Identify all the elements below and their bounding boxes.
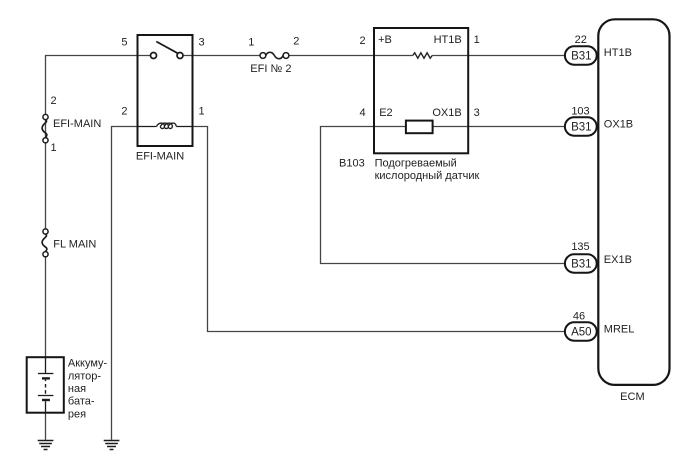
svg-text:1: 1 xyxy=(248,36,254,48)
svg-text:OX1B: OX1B xyxy=(604,119,633,131)
svg-text:MREL: MREL xyxy=(604,323,635,335)
svg-text:22: 22 xyxy=(575,34,587,46)
connector B31 pin 135 (EX1B) xyxy=(565,254,597,272)
relay EFI-MAIN box xyxy=(138,35,193,146)
svg-text:FL MAIN: FL MAIN xyxy=(53,238,96,250)
inductor: relay coil xyxy=(138,123,193,129)
resistor: oxygen sensor heater element xyxy=(413,53,433,58)
wire: relay coil pin 2 to ground xyxy=(112,127,138,440)
label: battery name (5 lines) xyxy=(68,358,108,421)
switch: relay contact terminals xyxy=(151,53,184,59)
svg-text:3: 3 xyxy=(199,37,205,49)
svg-text:+B: +B xyxy=(378,34,392,46)
svg-text:EFI № 2: EFI № 2 xyxy=(250,63,291,75)
svg-text:рея: рея xyxy=(68,408,86,420)
svg-text:E2: E2 xyxy=(379,107,392,119)
wire: relay pin 3 to fuse EFI No2 pin 1 xyxy=(183,55,260,57)
wire: HT1B row inside sensor box and out to ECM connector B31 xyxy=(374,55,565,57)
svg-text:3: 3 xyxy=(474,107,480,119)
svg-text:B31: B31 xyxy=(571,259,591,271)
svg-text:HT1B: HT1B xyxy=(604,47,632,59)
svg-text:B103: B103 xyxy=(339,158,365,170)
switch: relay movable blade xyxy=(156,42,178,54)
svg-text:B31: B31 xyxy=(571,51,591,63)
svg-text:лятор-: лятор- xyxy=(68,370,102,382)
svg-text:OX1B: OX1B xyxy=(432,107,461,119)
connector B31 pin 22 (HT1B) xyxy=(565,46,597,64)
svg-text:EFI-MAIN: EFI-MAIN xyxy=(53,118,101,130)
svg-text:2: 2 xyxy=(51,95,57,107)
svg-text:5: 5 xyxy=(121,37,127,49)
wire: battery negative to ground xyxy=(45,413,47,440)
svg-text:B31: B31 xyxy=(571,122,591,134)
fuse EFI No 2 (horizontal, terminals and wavy link) xyxy=(260,52,289,58)
connector A50 pin 46 (MREL) xyxy=(565,322,597,340)
svg-text:Аккуму-: Аккуму- xyxy=(68,358,108,370)
svg-text:1: 1 xyxy=(199,106,205,118)
svg-text:2: 2 xyxy=(293,36,299,48)
svg-text:EFI-MAIN: EFI-MAIN xyxy=(136,151,184,163)
wire: OX1B row from sensor element to ECM connector B31 xyxy=(433,126,565,128)
svg-text:2: 2 xyxy=(121,106,127,118)
wire: battery feed left vertical (battery + up to EFI-MAIN fuse and relay pin 5) xyxy=(45,56,47,358)
svg-text:46: 46 xyxy=(573,311,585,323)
wire: E2 row left from element, down and right to ECM connector B31 (EX1B) xyxy=(321,127,566,264)
fusible link FL MAIN (terminals and wavy link) xyxy=(42,229,48,257)
ground: relay coil pin 2 xyxy=(104,441,120,450)
svg-text:ная: ная xyxy=(68,383,86,395)
svg-text:ECM: ECM xyxy=(620,391,644,403)
svg-text:135: 135 xyxy=(571,241,589,253)
svg-text:Подогреваемый: Подогреваемый xyxy=(375,158,457,170)
battery box xyxy=(27,357,64,413)
fuse EFI-MAIN (left vertical, terminals and wavy link) xyxy=(42,114,48,142)
svg-text:1: 1 xyxy=(474,34,480,46)
ECM box xyxy=(598,19,669,385)
svg-text:4: 4 xyxy=(359,107,365,119)
svg-text:A50: A50 xyxy=(571,327,591,339)
connector B31 pin 103 (OX1B) xyxy=(565,117,597,135)
ground: below battery xyxy=(38,441,54,450)
sensor element (zirconia cell rectangle) xyxy=(406,121,433,134)
wire: top horizontal run to relay pin 5 xyxy=(45,55,151,57)
oxygen sensor box B103 xyxy=(374,28,468,153)
svg-text:HT1B: HT1B xyxy=(434,34,462,46)
svg-text:103: 103 xyxy=(571,105,589,117)
wire: relay coil pin 1 down and right to ECM connector A50 (MREL) xyxy=(193,127,566,332)
svg-text:EX1B: EX1B xyxy=(604,254,632,266)
svg-text:1: 1 xyxy=(51,142,57,154)
svg-text:бата-: бата- xyxy=(68,396,95,408)
wire: fuse EFI No2 pin 2 to sensor +B xyxy=(289,55,374,57)
svg-text:кислородный датчик: кислородный датчик xyxy=(375,170,480,182)
battery cell plates xyxy=(38,357,54,412)
svg-text:2: 2 xyxy=(359,35,365,47)
